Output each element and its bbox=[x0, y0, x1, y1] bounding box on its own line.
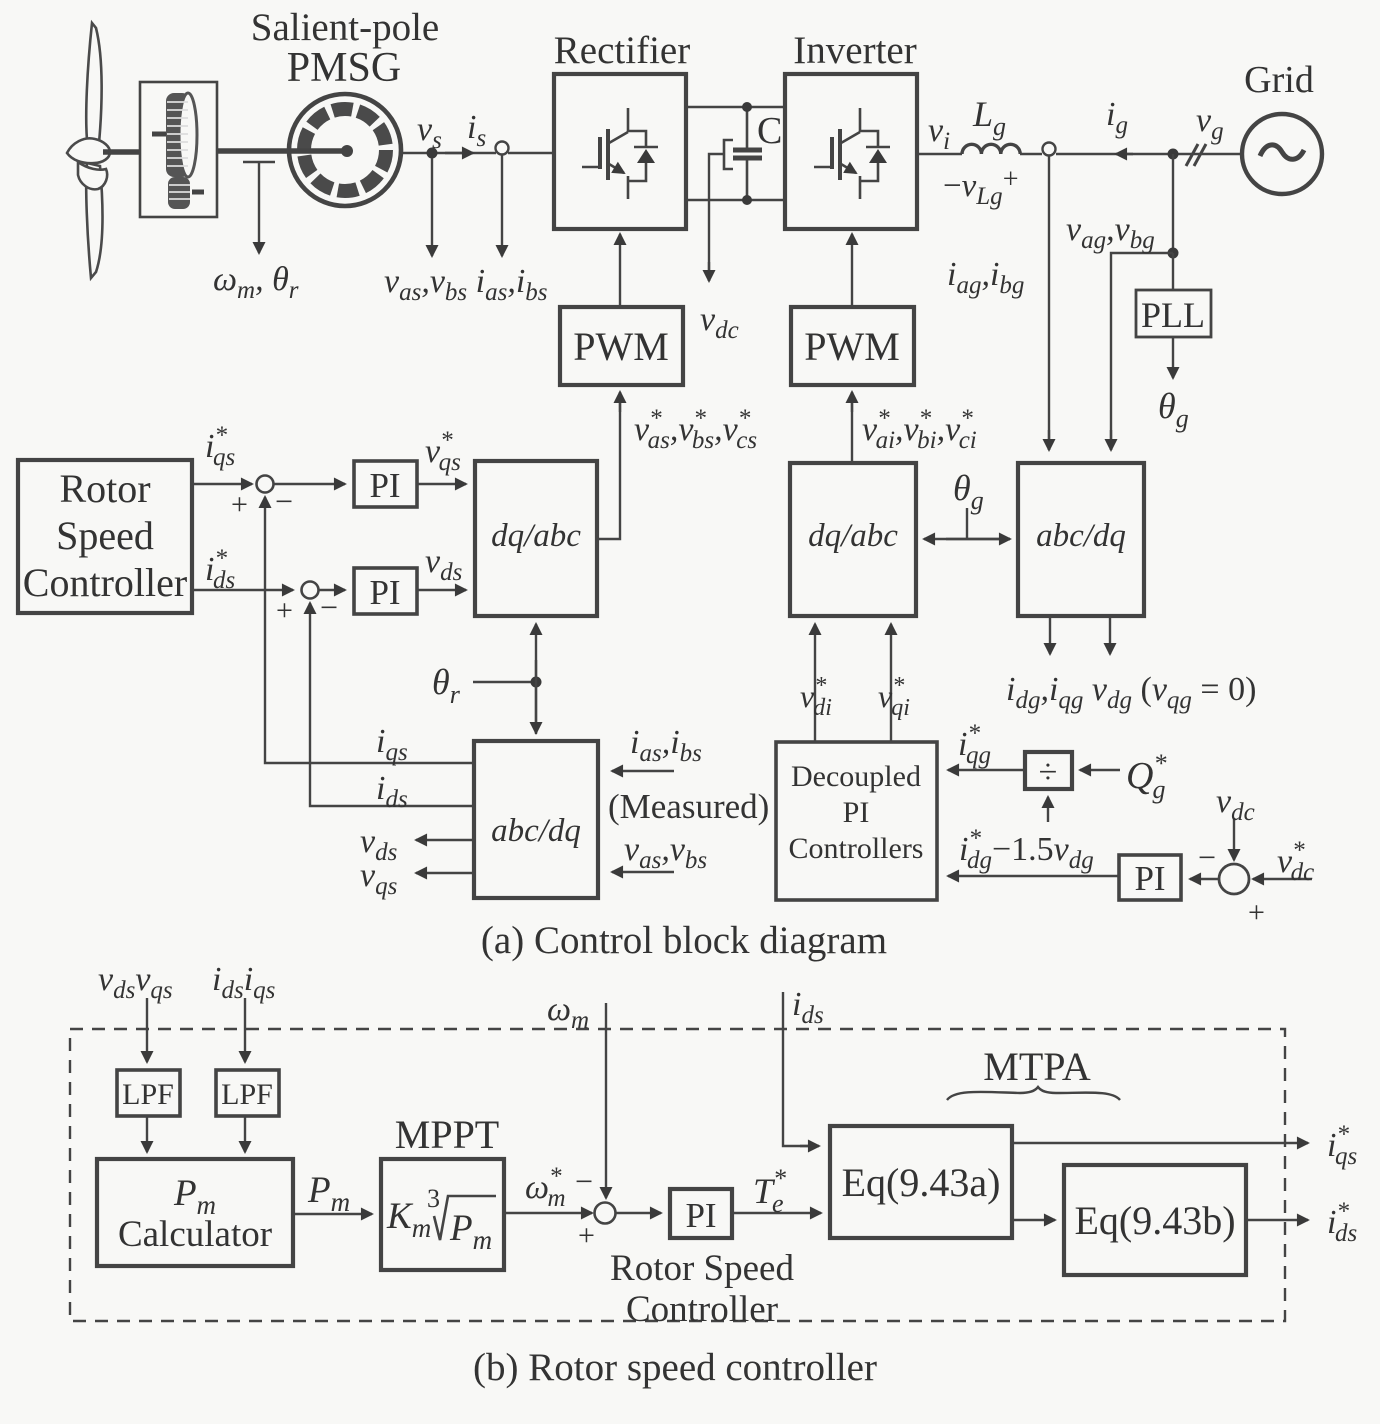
arrow vds into LPF1 bbox=[146, 998, 148, 1062]
abc/dq grid-side box bbox=[1018, 463, 1144, 616]
node theta_r junction bbox=[531, 677, 542, 688]
arrow LPF1 to Pm calc bbox=[146, 1116, 148, 1152]
v_dc arrow into S3 bbox=[1233, 818, 1235, 860]
summing node S2 bbox=[302, 582, 319, 599]
svg-text:dq/abc: dq/abc bbox=[808, 518, 898, 554]
wire Pm to MPPT bbox=[293, 1213, 372, 1215]
i_ds tap wire bbox=[783, 992, 817, 1146]
Decoupled PI Controllers box bbox=[776, 742, 937, 900]
arrow into divider bottom bbox=[1047, 797, 1049, 822]
arrow dqabc2 to PWM2 bbox=[851, 393, 853, 463]
capacitor C bbox=[733, 107, 762, 200]
PI box 1 bbox=[354, 461, 417, 507]
svg-text:Rectifier: Rectifier bbox=[554, 29, 690, 72]
svg-text:PI: PI bbox=[369, 466, 400, 505]
output arrow v_ds bbox=[416, 839, 474, 841]
svg-text:+: + bbox=[1248, 896, 1265, 929]
svg-text:T*e: T*e bbox=[753, 1164, 786, 1218]
svg-text:Calculator: Calculator bbox=[118, 1214, 272, 1255]
dq/abc grid-side box bbox=[790, 463, 916, 616]
svg-text:−: − bbox=[1198, 839, 1216, 875]
svg-text:(a) Control block diagram: (a) Control block diagram bbox=[481, 919, 887, 962]
feedback wire i_ds bbox=[310, 624, 474, 806]
input arrow i_as,i_bs measured bbox=[612, 770, 674, 772]
wire Qg to divider bbox=[1080, 769, 1120, 771]
svg-text:PWM: PWM bbox=[573, 324, 669, 369]
wire vag to abcdq bbox=[1111, 253, 1173, 450]
Eq(9.43a) box bbox=[830, 1126, 1012, 1238]
theta_r double arrow vertical bbox=[535, 624, 537, 734]
svg-text:idg,iqg vdg (vqg = 0): idg,iqg vdg (vqg = 0) bbox=[1006, 671, 1256, 714]
grid source bbox=[1242, 114, 1322, 194]
svg-text:Q*g: Q*g bbox=[1126, 749, 1166, 804]
slash marks bbox=[1186, 144, 1206, 166]
inverter box bbox=[785, 74, 917, 229]
low-speed shaft bbox=[103, 149, 140, 155]
sense line v_as,v_bs bbox=[431, 158, 433, 256]
svg-text:PLL: PLL bbox=[1141, 295, 1205, 335]
wire PI4 to Eq943a bbox=[732, 1212, 821, 1214]
wire theta_r bbox=[473, 681, 536, 683]
svg-text:PI: PI bbox=[369, 573, 400, 612]
Rotor Speed Controller box bbox=[18, 460, 192, 613]
svg-text:−: − bbox=[275, 483, 293, 519]
svg-text:PWM: PWM bbox=[804, 324, 900, 369]
svg-text:Speed: Speed bbox=[56, 513, 154, 558]
wire PMSG to rectifier bbox=[401, 152, 496, 154]
arrow i_s bbox=[445, 152, 473, 154]
PI box 2 bbox=[354, 568, 417, 614]
input arrow v_as,v_bs measured bbox=[612, 871, 674, 873]
wire iqs* to sum1 bbox=[192, 483, 252, 485]
svg-text:Rotor Speed: Rotor Speed bbox=[610, 1248, 794, 1289]
svg-text:+: + bbox=[578, 1219, 595, 1252]
svg-text:(b) Rotor speed controller: (b) Rotor speed controller bbox=[473, 1346, 877, 1389]
svg-text:abc/dq: abc/dq bbox=[1036, 518, 1126, 554]
IGBT inverter bbox=[814, 108, 890, 199]
arrow i_g bbox=[1116, 153, 1133, 155]
arrows out abcdq2 bottom bbox=[1049, 616, 1051, 654]
rectifier box bbox=[554, 74, 686, 229]
wire divider to decoupled bbox=[948, 769, 1025, 771]
svg-text:+: + bbox=[231, 488, 248, 521]
wire MPPT to sum4 bbox=[504, 1212, 592, 1214]
summing node S3 bbox=[1219, 864, 1249, 894]
arrow dqabc to PWM1 bbox=[597, 393, 620, 539]
svg-text:Controller: Controller bbox=[626, 1289, 778, 1330]
svg-text:+: + bbox=[276, 594, 293, 627]
speed sensor tick bbox=[243, 161, 275, 163]
inductor Lg bbox=[962, 144, 1020, 154]
Pm Calculator box bbox=[97, 1159, 293, 1266]
svg-text:Controller: Controller bbox=[23, 560, 187, 605]
output arrow v_qs bbox=[416, 872, 474, 874]
node vag junction bbox=[1168, 248, 1179, 259]
svg-text:Salient-pole: Salient-pole bbox=[251, 6, 439, 49]
abc/dq machine-side box bbox=[474, 741, 598, 898]
arrow PWM2 to inverter bbox=[851, 234, 853, 307]
label Km cuberoot Pm bbox=[386, 1184, 492, 1255]
w_m feedback arrow bbox=[605, 1003, 607, 1198]
svg-text:Eq(9.43a): Eq(9.43a) bbox=[842, 1160, 1001, 1205]
PMSG machine bbox=[289, 94, 401, 206]
svg-text:−: − bbox=[320, 589, 338, 625]
DC link top rail bbox=[686, 106, 785, 108]
wire sum3 to PI3 bbox=[1190, 878, 1219, 880]
sense line i_as,i_bs bbox=[501, 155, 503, 256]
svg-text:PMSG: PMSG bbox=[287, 45, 401, 91]
svg-text:LPF: LPF bbox=[122, 1078, 174, 1111]
MPPT box bbox=[381, 1159, 504, 1270]
wire PI3 to decoupled bbox=[948, 875, 1119, 877]
arrow v*_qi into dqabc2 bbox=[890, 624, 892, 742]
svg-text:abc/dq: abc/dq bbox=[491, 813, 581, 849]
svg-text:Controllers: Controllers bbox=[789, 832, 924, 865]
svg-text:PI: PI bbox=[843, 796, 870, 829]
svg-text:Inverter: Inverter bbox=[793, 29, 916, 72]
wind turbine blades bbox=[67, 23, 110, 278]
wire v*_dc into S3 bbox=[1253, 878, 1312, 880]
output wire i*_ds bbox=[1246, 1219, 1308, 1221]
PLL output arrow bbox=[1172, 337, 1174, 378]
wire PI1 to dqabc bbox=[417, 483, 466, 485]
theta_g tick bbox=[966, 508, 968, 539]
current sensor loop grid bbox=[1043, 143, 1056, 156]
PI box 3 bbox=[1119, 855, 1181, 900]
svg-text:PI: PI bbox=[685, 1196, 716, 1235]
dq/abc machine-side box bbox=[475, 461, 597, 616]
wire iag sensor down bbox=[1048, 155, 1050, 450]
wire to grid bbox=[1056, 153, 1242, 155]
node cap top bbox=[742, 102, 752, 112]
svg-text:Rotor: Rotor bbox=[59, 466, 150, 511]
PI box 4 bbox=[670, 1189, 732, 1238]
node v_s bbox=[427, 148, 438, 159]
wire S1 to PI1 bbox=[274, 483, 345, 485]
radical sign bbox=[434, 1196, 496, 1240]
svg-text:C: C bbox=[757, 110, 782, 152]
tilde bbox=[1260, 145, 1304, 159]
feedback iqs arrow into S1 bbox=[264, 497, 266, 518]
wire bbox=[1020, 153, 1042, 155]
svg-text:MTPA: MTPA bbox=[983, 1044, 1091, 1089]
summing node S1 bbox=[257, 476, 274, 493]
svg-text:(Measured): (Measured) bbox=[608, 787, 769, 826]
svg-text:Decoupled: Decoupled bbox=[791, 760, 921, 793]
PLL box bbox=[1136, 290, 1211, 337]
brace MTPA bbox=[947, 1087, 1120, 1100]
v_dc sense wire bbox=[709, 154, 724, 281]
arrow PWM1 to rectifier bbox=[619, 234, 621, 307]
svg-text:PI: PI bbox=[1134, 859, 1165, 898]
arrow v*_di into dqabc2 bbox=[814, 624, 816, 742]
wire S2 to PI2 bbox=[319, 589, 345, 591]
gearbox bbox=[140, 82, 217, 217]
LPF box 1 bbox=[117, 1070, 180, 1116]
wire Eq943a to Eq943b bbox=[1012, 1219, 1055, 1221]
divider box bbox=[1025, 752, 1072, 789]
PWM rectifier box bbox=[560, 307, 683, 385]
current sensor loop stator bbox=[496, 142, 509, 155]
wire PI2 to dqabc bbox=[417, 589, 466, 591]
PWM inverter box bbox=[791, 307, 914, 385]
feedback wire i_qs bbox=[265, 518, 474, 763]
summing node S4 bbox=[595, 1203, 616, 1224]
svg-text:Eq(9.43b): Eq(9.43b) bbox=[1074, 1198, 1235, 1243]
shaft gearbox to PMSG bbox=[217, 148, 348, 154]
LPF box 2 bbox=[216, 1070, 279, 1116]
svg-text:−: − bbox=[575, 1163, 593, 1199]
svg-text:dq/abc: dq/abc bbox=[491, 518, 581, 554]
wire junction to PLL bbox=[1172, 253, 1174, 290]
speed sensor arrow bbox=[258, 162, 260, 253]
wire grid junction down bbox=[1172, 154, 1174, 253]
wire ids* to sum2 bbox=[192, 589, 293, 591]
wire S4 to PI4 bbox=[616, 1212, 661, 1214]
dashed boundary rotor speed controller bbox=[70, 1029, 1285, 1321]
svg-text:ω*m: ω*m bbox=[525, 1163, 566, 1212]
svg-text:MPPT: MPPT bbox=[395, 1112, 500, 1157]
feedback ids arrow into S2 bbox=[309, 603, 311, 624]
arrow ids into LPF2 bbox=[244, 998, 246, 1062]
svg-text:Grid: Grid bbox=[1244, 59, 1314, 101]
svg-text:ωm, θr: ωm, θr bbox=[213, 261, 299, 304]
node grid junction bbox=[1168, 149, 1179, 160]
polarity bracket bbox=[724, 140, 733, 169]
node cap bottom bbox=[742, 195, 752, 205]
svg-text:÷: ÷ bbox=[1039, 754, 1058, 791]
output wire i*_qs bbox=[1012, 1142, 1308, 1144]
svg-text:v*as,v*bs,v*cs: v*as,v*bs,v*cs bbox=[634, 405, 757, 454]
theta_g double arrow horizontal bbox=[924, 538, 1010, 540]
DC link bottom rail bbox=[686, 199, 785, 201]
IGBT rectifier bbox=[582, 108, 658, 199]
svg-text:LPF: LPF bbox=[221, 1078, 273, 1111]
svg-text:3: 3 bbox=[427, 1184, 440, 1213]
svg-text:v*ai,v*bi,v*ci: v*ai,v*bi,v*ci bbox=[862, 405, 977, 454]
wire inverter to grid bbox=[917, 153, 962, 155]
arrow LPF2 to Pm calc bbox=[244, 1116, 246, 1152]
Eq(9.43b) box bbox=[1064, 1165, 1246, 1275]
